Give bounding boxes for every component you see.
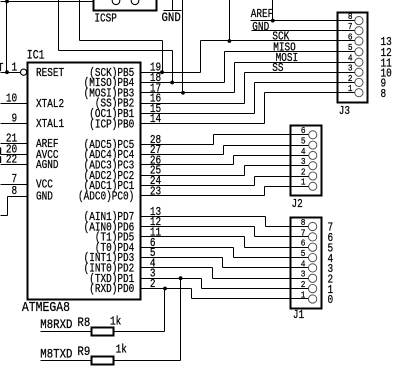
svg-text:9: 9 [12, 113, 18, 126]
svg-text:0: 0 [328, 294, 334, 307]
svg-text:7: 7 [348, 21, 353, 32]
svg-text:GND: GND [36, 191, 53, 204]
svg-text:2: 2 [150, 278, 156, 291]
svg-text:3: 3 [301, 156, 306, 167]
svg-text:ICSP: ICSP [94, 13, 117, 26]
svg-text:ATMEGA8: ATMEGA8 [22, 299, 70, 315]
svg-text:AGND: AGND [36, 159, 59, 172]
svg-text:IC1: IC1 [27, 47, 45, 63]
svg-text:1k: 1k [116, 344, 127, 357]
svg-text:1: 1 [12, 62, 18, 75]
svg-text:(ADC0)PC0): (ADC0)PC0) [78, 191, 134, 204]
svg-text:1: 1 [301, 290, 306, 301]
svg-text:7: 7 [301, 228, 306, 239]
svg-text:T: T [0, 62, 3, 75]
svg-text:XTAL1: XTAL1 [36, 118, 64, 131]
svg-text:3: 3 [301, 269, 306, 280]
svg-text:2: 2 [348, 73, 353, 84]
svg-text:J1: J1 [293, 309, 304, 322]
svg-text:AREF: AREF [251, 8, 274, 21]
svg-text:1k: 1k [110, 316, 121, 329]
svg-text:R9: R9 [77, 344, 90, 359]
svg-text:2: 2 [301, 167, 306, 178]
svg-text:1: 1 [301, 177, 306, 188]
svg-text:4: 4 [301, 259, 306, 270]
svg-text:23: 23 [150, 186, 161, 199]
svg-text:SS: SS [272, 62, 283, 75]
svg-text:8: 8 [381, 88, 387, 101]
svg-text:GND: GND [252, 21, 269, 34]
svg-text:8: 8 [12, 185, 18, 198]
svg-text:5: 5 [301, 248, 306, 259]
svg-text:10: 10 [6, 93, 17, 106]
svg-text:(RXD)PD0: (RXD)PD0 [89, 283, 134, 296]
svg-text:14: 14 [150, 113, 161, 126]
svg-text:GND: GND [162, 10, 181, 25]
svg-text:J2: J2 [292, 198, 303, 211]
svg-text:XTAL2: XTAL2 [36, 98, 64, 111]
svg-text:6: 6 [348, 32, 353, 43]
svg-text:5: 5 [301, 136, 306, 147]
svg-text:2: 2 [301, 279, 306, 290]
svg-text:(ICP)PB0: (ICP)PB0 [89, 119, 134, 132]
svg-text:22: 22 [6, 154, 17, 167]
svg-text:5: 5 [348, 43, 353, 54]
svg-text:R8: R8 [77, 315, 90, 330]
svg-text:4: 4 [301, 146, 306, 157]
svg-text:M8RXD: M8RXD [40, 317, 72, 332]
svg-text:8: 8 [301, 217, 306, 228]
svg-text:1: 1 [348, 83, 353, 94]
svg-text:6: 6 [301, 126, 306, 137]
svg-text:6: 6 [301, 238, 306, 249]
svg-text:J3: J3 [339, 105, 350, 118]
svg-text:M8TXD: M8TXD [40, 347, 72, 362]
svg-text:RESET: RESET [36, 67, 64, 80]
